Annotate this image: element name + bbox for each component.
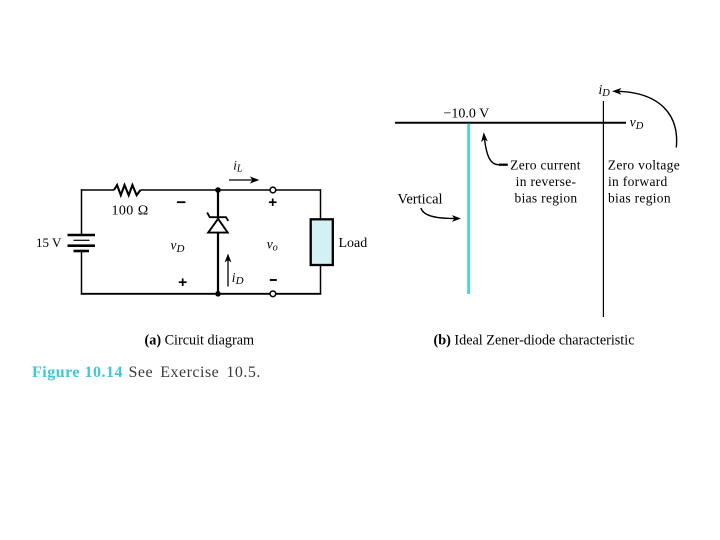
current arrow iD — [225, 254, 232, 287]
label minus of vD — [177, 201, 186, 203]
svg-text:bias region: bias region — [515, 190, 578, 205]
zener diode cathode bar with bent ends — [207, 213, 228, 221]
resistor 100 ohm — [114, 185, 141, 195]
wire right vertical lower — [320, 266, 322, 295]
svg-text:vD: vD — [630, 115, 644, 132]
annotation zero voltage block — [608, 158, 680, 206]
svg-text:vo: vo — [267, 237, 278, 254]
wire top-middle horizontal — [141, 189, 321, 191]
wire left vertical lower — [81, 251, 83, 295]
svg-text:Zero voltage: Zero voltage — [608, 158, 680, 173]
svg-text:iL: iL — [233, 158, 243, 175]
svg-text:Vertical: Vertical — [398, 192, 443, 208]
zener diode shaft lower — [217, 233, 219, 294]
svg-text:(a) Circuit diagram: (a) Circuit diagram — [145, 333, 255, 349]
svg-text:(b) Ideal Zener-diode characte: (b) Ideal Zener-diode characteristic — [434, 333, 635, 349]
curved arrow vertical to cyan line — [421, 208, 461, 222]
svg-text:100 Ω: 100 Ω — [112, 204, 149, 219]
label plus of vo — [269, 199, 277, 207]
svg-text:Zero current: Zero current — [510, 158, 581, 173]
axis iD vertical — [602, 101, 604, 317]
terminal bottom open circle — [270, 291, 276, 297]
node top junction dot — [215, 187, 221, 193]
node bottom junction dot — [215, 291, 221, 297]
annotation zero current block — [510, 158, 581, 206]
wire right vertical upper — [320, 189, 322, 219]
current arrow iL — [229, 176, 259, 183]
axis vD horizontal — [395, 122, 626, 124]
figure caption — [32, 364, 261, 381]
label plus of vD — [179, 278, 187, 286]
zener diode shaft upper — [217, 190, 219, 219]
wire top-left horizontal — [81, 189, 114, 191]
zener diode triangle — [208, 219, 228, 233]
svg-text:−10.0 V: −10.0 V — [444, 107, 490, 122]
svg-text:Figure 10.14: Figure 10.14 — [32, 364, 123, 381]
curved arrow to iD label — [612, 88, 677, 148]
svg-text:bias region: bias region — [608, 190, 671, 205]
curved arrow zero-current to axis — [481, 132, 508, 165]
svg-text:iD: iD — [232, 270, 244, 287]
battery 15 V — [68, 235, 96, 251]
wire left vertical upper — [81, 189, 83, 235]
characteristic vertical cyan line — [467, 124, 470, 295]
svg-text:15 V: 15 V — [36, 235, 62, 250]
svg-text:vD: vD — [171, 238, 185, 255]
label minus of vo — [270, 279, 277, 281]
svg-text:iD: iD — [599, 82, 611, 99]
svg-text:in forward: in forward — [608, 174, 668, 189]
load resistor box — [311, 219, 333, 265]
svg-text:in reverse-: in reverse- — [516, 174, 577, 189]
terminal top open circle — [270, 187, 276, 193]
svg-text:Load: Load — [339, 236, 368, 251]
svg-text:See Exercise 10.5.: See Exercise 10.5. — [129, 364, 261, 381]
wire bottom horizontal — [81, 293, 321, 295]
